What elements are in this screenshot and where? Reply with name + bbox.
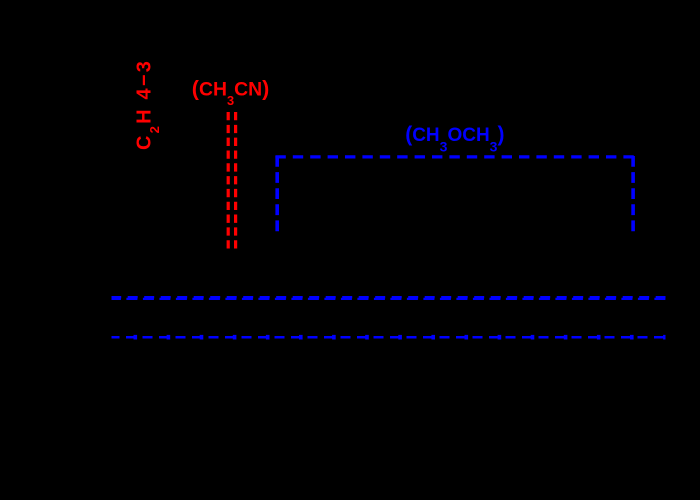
- CH3OCH3 bracket left leg: [275, 156, 279, 231]
- CH3CN marker line left: [227, 112, 230, 249]
- CH3CN marker line right: [234, 112, 237, 249]
- lower dashed reference line: [112, 336, 666, 339]
- lower dashed reference line blob ticks: [112, 335, 666, 340]
- upper dashed reference line (row B, phase shifted): [112, 298, 666, 300]
- upper dashed reference line (row A): [112, 296, 666, 298]
- CH3OCH3 bracket horizontal: [275, 155, 635, 158]
- CH3OCH3 bracket right leg: [631, 156, 635, 231]
